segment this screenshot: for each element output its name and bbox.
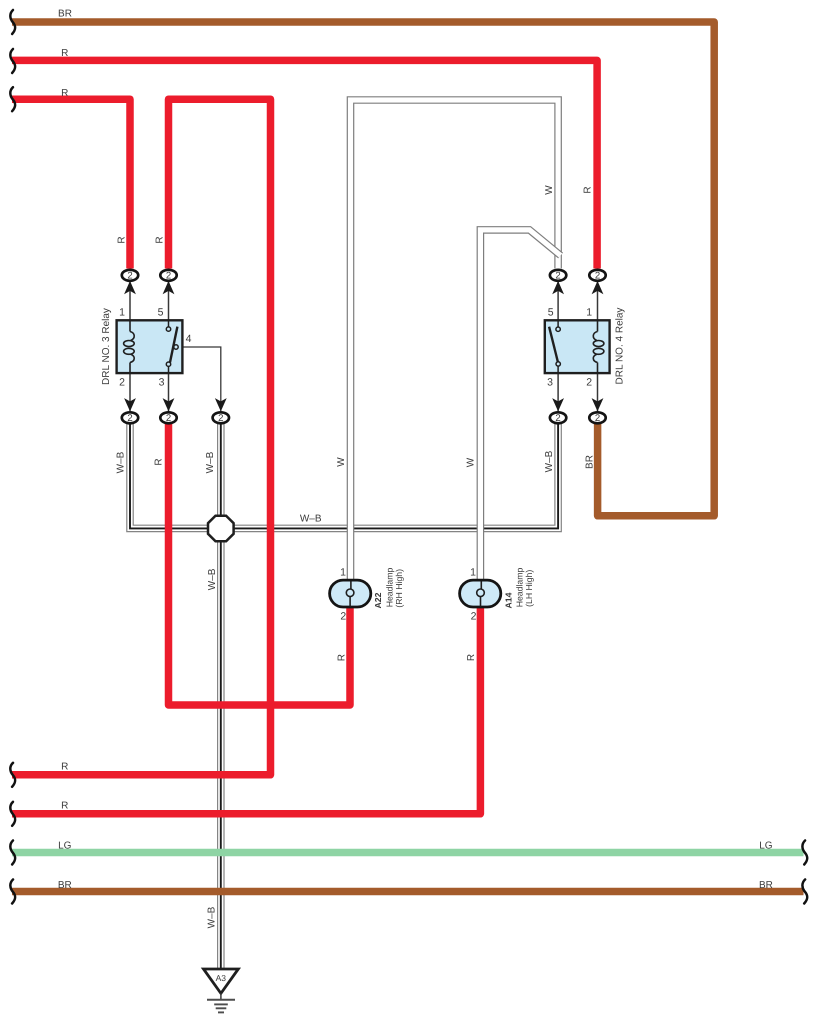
- svg-text:R: R: [61, 88, 68, 99]
- svg-text:2: 2: [555, 271, 560, 282]
- wire break right BR bottom: [802, 880, 807, 904]
- svg-text:1: 1: [340, 567, 346, 579]
- arrow into relay3 pin4 connector: [215, 398, 227, 411]
- svg-text:(LH High): (LH High): [524, 570, 534, 607]
- svg-text:2: 2: [471, 611, 477, 623]
- svg-text:R: R: [583, 186, 594, 193]
- svg-text:(RH High): (RH High): [394, 569, 404, 608]
- wire break left BR top: [10, 10, 15, 34]
- svg-text:R: R: [61, 48, 68, 59]
- svg-text:W–B: W–B: [206, 906, 217, 928]
- svg-text:LG: LG: [759, 840, 773, 851]
- wire break right LG: [802, 841, 807, 865]
- relay4 coil: [593, 320, 604, 373]
- svg-text:R: R: [61, 761, 68, 772]
- svg-text:W–B: W–B: [115, 451, 126, 473]
- svg-text:BR: BR: [58, 9, 72, 20]
- svg-text:2: 2: [340, 611, 346, 623]
- svg-text:W: W: [466, 457, 477, 467]
- arrow into relay4 pin5 connector: [552, 281, 564, 294]
- svg-text:R: R: [466, 654, 477, 661]
- svg-text:1: 1: [586, 306, 592, 318]
- svg-text:2: 2: [218, 413, 223, 424]
- svg-text:DRL NO. 3 Relay: DRL NO. 3 Relay: [101, 308, 112, 385]
- connector 2 relay3 pin4: [213, 412, 229, 424]
- relay U2 DRL NO. 4 Relay box: [545, 320, 610, 373]
- svg-text:BR: BR: [585, 455, 596, 469]
- svg-text:R: R: [337, 654, 348, 661]
- svg-text:W–B: W–B: [205, 451, 216, 473]
- svg-text:A22: A22: [373, 592, 383, 608]
- svg-text:2: 2: [595, 413, 600, 424]
- relay U1 DRL NO. 3 Relay box: [117, 320, 183, 373]
- wire W net: headlamp A22 pin1 up, across top, down to relay4 pin5: [351, 100, 559, 581]
- svg-text:W–B: W–B: [207, 568, 218, 590]
- svg-text:A14: A14: [503, 592, 513, 608]
- wire: relay3 pin4 route to its connector: [178, 347, 221, 411]
- svg-text:2: 2: [127, 413, 132, 424]
- arrow into relay3 pin2 connector: [124, 398, 136, 411]
- svg-text:2: 2: [586, 377, 592, 389]
- svg-text:A3: A3: [216, 973, 227, 983]
- connector 2 relay3 pin5: [160, 270, 176, 282]
- wire LG: bottom row: [12, 849, 804, 857]
- wire W net: headlamp A14 pin1 up and diagonal merge into relay4 pin5 branch: [480, 230, 560, 581]
- wire break left R row4: [10, 763, 15, 787]
- arrow into relay4 pin2 connector: [592, 398, 604, 411]
- svg-text:2: 2: [166, 413, 171, 424]
- relay3 coil: [124, 320, 135, 373]
- lamp A22 Headlamp (RH High): [330, 580, 371, 607]
- svg-text:4: 4: [186, 333, 192, 345]
- wire break left BR bottom: [10, 880, 15, 904]
- svg-text:3: 3: [159, 377, 165, 389]
- arrow into relay4 pin3 connector: [552, 398, 564, 411]
- lamp A14 Headlamp (LH High): [460, 580, 501, 607]
- svg-text:5: 5: [158, 306, 164, 318]
- wire BR: bottom row: [12, 888, 804, 896]
- svg-text:W–B: W–B: [544, 450, 555, 472]
- wire W-B net: relay3 pin2 down, horizontal bus, up to relay4 pin3: [130, 424, 558, 528]
- svg-text:DRL NO. 4 Relay: DRL NO. 4 Relay: [615, 308, 626, 385]
- arrow into relay4 pin1 connector: [592, 281, 604, 294]
- relay3 switch contacts and blade: [166, 320, 178, 373]
- connector 2 relay3 pin1: [122, 270, 138, 282]
- connector 2 relay3 pin3: [160, 412, 176, 424]
- svg-text:2: 2: [166, 271, 171, 282]
- relay4 switch contacts and blade: [549, 320, 560, 373]
- svg-text:2: 2: [127, 271, 132, 282]
- wire break left R row5: [10, 802, 15, 826]
- wire BR: battery feed across top, down right side, to relay4 pin2: [12, 22, 714, 516]
- wire R: relay3 pin5 up-over-down to bottom-left R row: [12, 99, 271, 775]
- svg-text:BR: BR: [759, 880, 773, 891]
- svg-text:R: R: [154, 458, 165, 465]
- svg-text:R: R: [61, 801, 68, 812]
- wire break left R row3: [10, 87, 15, 111]
- connector 2 relay4 pin5: [550, 270, 566, 282]
- wire R: headlamp A14 pin2 down to bottom-left R row: [12, 607, 480, 814]
- svg-text:2: 2: [555, 413, 560, 424]
- relay3 pin stub lines: [130, 282, 169, 411]
- ground A3: [204, 969, 239, 1012]
- wire R: relay3 pin3 down-right-up to headlamp A22 pin2: [169, 424, 351, 705]
- svg-text:2: 2: [595, 271, 600, 282]
- arrow into relay3 pin5 connector: [163, 281, 175, 294]
- wire W-B net: relay3 pin4 connector through junction down to ground A3: [217, 424, 225, 969]
- svg-text:1: 1: [119, 306, 125, 318]
- arrow into relay3 pin1 connector: [124, 281, 136, 294]
- svg-text:W–B: W–B: [300, 514, 322, 525]
- arrow into relay3 pin3 connector: [163, 398, 175, 411]
- svg-text:1: 1: [470, 567, 476, 579]
- svg-text:W: W: [544, 185, 555, 195]
- connector 2 relay4 pin2: [589, 412, 605, 424]
- svg-text:R: R: [154, 236, 165, 243]
- svg-text:W: W: [336, 457, 347, 467]
- connector 2 relay3 pin2: [122, 412, 138, 424]
- wire break left R row2: [10, 49, 15, 73]
- svg-text:R: R: [116, 236, 127, 243]
- wire R: second row feed to relay4 pin1: [12, 60, 597, 268]
- svg-text:LG: LG: [58, 840, 72, 851]
- svg-text:3: 3: [547, 377, 553, 389]
- svg-text:BR: BR: [58, 880, 72, 891]
- wire break left LG: [10, 841, 15, 865]
- connector 2 relay4 pin1: [589, 270, 605, 282]
- node: W-B junction octagon: [208, 516, 234, 542]
- connector 2 relay4 pin3: [550, 412, 566, 424]
- svg-text:2: 2: [119, 377, 125, 389]
- wire R: third row feed to relay3 pin1: [12, 99, 130, 268]
- relay4 pin stub lines: [558, 282, 597, 411]
- svg-text:5: 5: [548, 306, 554, 318]
